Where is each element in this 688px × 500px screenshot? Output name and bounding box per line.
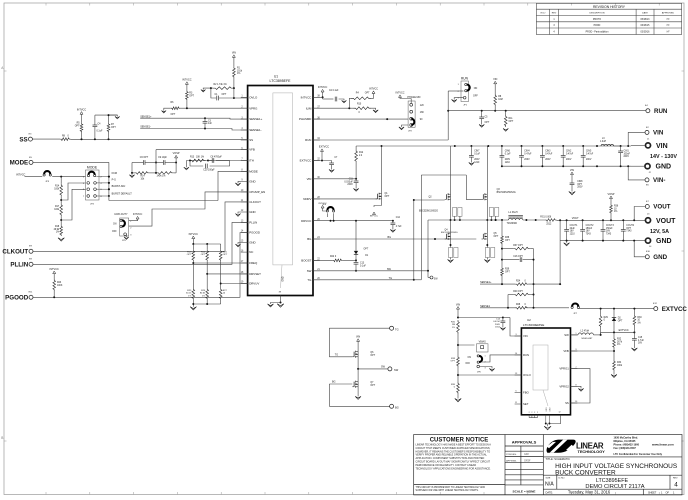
resistor R12 2.2 xyxy=(355,146,357,150)
resistor R33 OPT xyxy=(457,356,460,367)
ground pin 12 xyxy=(238,212,241,214)
connector E3 SS xyxy=(28,137,32,141)
wire R33 to R35 xyxy=(457,367,459,382)
svg-text:TITLE: SCHEMATIC: TITLE: SCHEMATIC xyxy=(546,457,570,461)
svg-text:VOUT: VOUT xyxy=(653,204,670,211)
connector E9 CLKOUT xyxy=(29,249,33,253)
svg-text:OPT: OPT xyxy=(485,122,490,124)
svg-text:22uF: 22uF xyxy=(570,228,576,230)
svg-text:C16 OPT: C16 OPT xyxy=(513,256,523,258)
svg-text:2: 2 xyxy=(534,412,535,414)
wire Q6 source to SW xyxy=(357,357,359,369)
transistor Q6 OPT xyxy=(353,352,355,357)
ground VFB divider xyxy=(131,163,133,173)
svg-text:C6 OPT: C6 OPT xyxy=(140,157,149,159)
wire L3 to CIN1 xyxy=(614,145,631,147)
transistor Q7 OPT xyxy=(353,382,355,387)
label VBIAS xyxy=(477,344,489,352)
wire TG to Q3 gate xyxy=(414,279,422,281)
svg-text:GND: GND xyxy=(656,238,672,245)
flag SW offpage xyxy=(430,276,433,279)
svg-text:RUN: RUN xyxy=(523,353,529,357)
ground Q4 source xyxy=(450,258,452,260)
ground U2 main xyxy=(547,424,549,427)
svg-text:EXTVCC: EXTVCC xyxy=(662,306,688,313)
power INTVCC pin38 xyxy=(313,96,323,98)
svg-text:VPRG: VPRG xyxy=(249,106,258,110)
power VIN top xyxy=(232,55,235,58)
svg-text:VOSP: VOSP xyxy=(173,152,180,155)
capacitor CIN2 0.47uF xyxy=(562,146,564,156)
connector J1 VIN xyxy=(645,143,650,148)
svg-text:T4630300: T4630300 xyxy=(507,223,518,225)
svg-text:MODE: MODE xyxy=(249,170,258,174)
revision history table xyxy=(536,3,681,34)
svg-text:MODE: MODE xyxy=(10,160,29,167)
svg-text:INTVCC: INTVCC xyxy=(319,203,328,205)
capacitor CIN8 OPT xyxy=(571,175,573,183)
connector E4 RUN xyxy=(646,109,650,113)
wire BG pin24 xyxy=(313,238,476,240)
svg-text:R38: R38 xyxy=(505,237,510,239)
U1 right pins xyxy=(299,95,320,282)
svg-text:R28: R28 xyxy=(516,304,521,306)
resistor R22 0 xyxy=(333,259,343,262)
svg-text:1.0uH: 1.0uH xyxy=(600,141,606,143)
wire Q5 drain xyxy=(486,220,488,234)
svg-text:PLLIN: PLLIN xyxy=(249,221,257,225)
resistor R14 100k xyxy=(60,184,63,197)
connector J2 GND xyxy=(645,164,650,169)
svg-text:R17: R17 xyxy=(55,206,60,208)
resistor R6 xyxy=(171,107,180,110)
wire EXTVCC rail xyxy=(601,331,635,333)
svg-text:TG: TG xyxy=(389,277,393,280)
capacitor CIN4 0.47uF xyxy=(521,146,523,156)
svg-text:C13: C13 xyxy=(360,263,365,265)
connector E2 VIN xyxy=(645,130,649,134)
wire BG flag xyxy=(329,405,389,407)
capacitor CIN6 0.1uF xyxy=(501,146,503,156)
wire JP7 to E12 xyxy=(578,308,654,310)
svg-text:GND: GND xyxy=(249,241,255,245)
svg-text:49.9k: 49.9k xyxy=(54,229,60,231)
capacitor C7 xyxy=(331,161,333,164)
svg-text:DRVCC: DRVCC xyxy=(301,219,311,223)
capacitor C2 0.1uF xyxy=(322,97,324,99)
svg-text:OPT: OPT xyxy=(111,127,116,129)
svg-text:100% DUTY: 100% DUTY xyxy=(114,213,128,216)
svg-text:GND: GND xyxy=(249,210,255,214)
wire MODE to pin8 xyxy=(108,196,110,201)
power VIN CIN8 xyxy=(571,172,574,175)
wire freq gnd rail xyxy=(193,303,220,305)
svg-text:R10: R10 xyxy=(357,103,362,105)
jumper JP3 xyxy=(44,171,50,174)
jumper JP5 shunt xyxy=(122,220,125,226)
svg-text:1%: 1% xyxy=(56,232,59,234)
wire VOUT rail xyxy=(557,219,646,221)
capacitor CIN1 100uF xyxy=(620,146,622,151)
resistor R40 OPT xyxy=(513,293,530,296)
power VIN Q6 xyxy=(357,341,359,351)
capacitor COUT3 xyxy=(602,220,604,229)
svg-text:APPROVALS: APPROVALS xyxy=(512,440,537,445)
resistor R7 OPT xyxy=(108,115,110,123)
svg-text:PROD: PROD xyxy=(594,25,601,27)
wire TG flag xyxy=(390,326,394,330)
svg-text:10K 1%: 10K 1% xyxy=(196,157,204,159)
svg-text:0.1uF: 0.1uF xyxy=(505,153,511,155)
svg-text:R34: R34 xyxy=(617,362,622,364)
svg-text:BSC520N15NS3G: BSC520N15NS3G xyxy=(419,211,438,213)
ground at SS top rail xyxy=(115,117,120,119)
svg-text:ILIM: ILIM xyxy=(306,106,312,110)
resistor R34 196k xyxy=(613,360,616,371)
wire ILIM pin37 xyxy=(313,107,354,109)
svg-text:TECHNOLOGY: TECHNOLOGY xyxy=(578,449,606,454)
svg-text:ECO: ECO xyxy=(541,13,546,15)
svg-text:LTC Confidential-For Customer: LTC Confidential-For Customer Use Only xyxy=(614,453,663,456)
svg-text:OVLO: OVLO xyxy=(523,373,532,377)
U1 ground pin 39 stub xyxy=(280,296,282,303)
svg-text:VIN: VIN xyxy=(656,143,668,150)
svg-text:200V: 200V xyxy=(505,159,511,161)
connector E11 PGOOD xyxy=(29,295,33,299)
svg-text:BURST DEFAULT: BURST DEFAULT xyxy=(112,193,133,196)
U1 left pins xyxy=(241,95,266,285)
svg-text:1%: 1% xyxy=(637,322,640,324)
svg-text:196k: 196k xyxy=(617,365,623,367)
svg-text:FREQ: FREQ xyxy=(249,261,258,265)
wire R31 top to C14 xyxy=(458,317,503,319)
svg-text:SHEET: SHEET xyxy=(648,491,657,494)
svg-text:OPT: OPT xyxy=(223,254,228,256)
ground R18 xyxy=(58,238,64,241)
resistor R28 0 xyxy=(515,306,528,309)
svg-text:VIN: VIN xyxy=(570,169,574,172)
svg-text:OPT: OPT xyxy=(385,196,390,198)
power VIN R8b xyxy=(494,81,497,84)
ground output rail xyxy=(566,241,568,243)
svg-text:COUT4: COUT4 xyxy=(626,225,635,227)
resistor R11 OPT xyxy=(505,111,507,115)
svg-text:16V: 16V xyxy=(638,343,643,345)
svg-text:RUN: RUN xyxy=(654,108,668,115)
wire U2 bottom gnd xyxy=(529,417,537,419)
wire SS to pin5 xyxy=(71,139,248,141)
svg-text:PHASMD: PHASMD xyxy=(299,117,311,121)
svg-text:VIN: VIN xyxy=(307,177,312,181)
svg-text:P-S: P-S xyxy=(112,178,117,181)
ground left of R6 xyxy=(164,108,171,110)
snubber footprint Q2 xyxy=(453,208,457,217)
svg-text:16V: 16V xyxy=(606,231,611,233)
svg-text:PCB DES.: PCB DES. xyxy=(506,454,517,456)
svg-text:14V - 130V: 14V - 130V xyxy=(650,154,677,160)
op-amp U1 LTC3895EFE body xyxy=(248,74,313,295)
svg-text:0.033uF: 0.033uF xyxy=(344,181,353,183)
svg-text:R40 OPT: R40 OPT xyxy=(513,291,523,293)
svg-text:1%: 1% xyxy=(614,211,617,213)
svg-text:SUPPLIED FOR USE WITH LINEAR T: SUPPLIED FOR USE WITH LINEAR TECHNOLOGY … xyxy=(416,489,479,492)
svg-text:100uF: 100uF xyxy=(624,153,631,155)
svg-text:1%: 1% xyxy=(617,344,620,346)
capacitor C14 0.47uF xyxy=(502,318,504,322)
power VOSP at VFB xyxy=(175,155,178,158)
svg-text:BURST ADJ: BURST ADJ xyxy=(112,185,126,188)
ground ITH xyxy=(185,161,187,168)
svg-text:1812: 1812 xyxy=(495,327,501,329)
svg-text:INTVCC: INTVCC xyxy=(50,268,60,271)
wire VIN to R31 xyxy=(457,309,459,317)
connector E8 PLLIN xyxy=(29,262,33,266)
power INTVCC freq pullups xyxy=(192,236,195,239)
wire Q4 drain xyxy=(450,220,452,234)
resistor R36 10 xyxy=(610,199,612,204)
svg-text:PROD - Parts addition: PROD - Parts addition xyxy=(586,30,609,33)
svg-text:SS: SS xyxy=(565,401,569,405)
wire C14 to U2 VIN xyxy=(503,317,510,319)
svg-text:MODE: MODE xyxy=(87,165,98,169)
svg-text:SENSE1+: SENSE1+ xyxy=(249,117,262,121)
resistor R27 10 xyxy=(219,288,222,300)
capacitor C15 4.7uF xyxy=(633,332,635,338)
svg-text:ON: ON xyxy=(468,357,472,359)
svg-text:VOUT: VOUT xyxy=(572,217,579,220)
svg-text:TECHNOLOGY APPLICATIONS ENGINE: TECHNOLOGY APPLICATIONS ENGINEERING FOR … xyxy=(416,467,491,470)
svg-text:SET: SET xyxy=(523,402,529,406)
svg-text:C12: C12 xyxy=(396,217,401,219)
svg-text:CUSTOMER NOTICE: CUSTOMER NOTICE xyxy=(430,437,489,443)
svg-text:12V, 5A: 12V, 5A xyxy=(650,229,669,235)
svg-text:16V: 16V xyxy=(570,231,575,233)
svg-text:C8 4700pF: C8 4700pF xyxy=(210,157,222,159)
svg-text:EXTVCC: EXTVCC xyxy=(319,146,329,149)
resistor R29 0 xyxy=(600,309,602,315)
svg-text:GND: GND xyxy=(249,180,255,184)
wire TG pin20 xyxy=(313,279,414,281)
svg-text:1%: 1% xyxy=(452,327,455,329)
header JP5 xyxy=(120,218,129,236)
svg-text:VPRG1: VPRG1 xyxy=(559,367,569,371)
connector J4 GND xyxy=(645,238,650,243)
svg-text:THIS CIRCUIT IS PROPRIETARY TO: THIS CIRCUIT IS PROPRIETARY TO LINEAR TE… xyxy=(416,486,486,489)
svg-text:R39: R39 xyxy=(505,269,510,271)
wire VIN pin30 xyxy=(313,178,356,180)
transistor Q5 xyxy=(482,234,484,239)
svg-text:200V: 200V xyxy=(586,159,592,161)
svg-text:CLKOUT: CLKOUT xyxy=(249,200,261,204)
wire R31 to R33 xyxy=(457,334,459,356)
svg-text:VIN: VIN xyxy=(653,130,664,137)
svg-text:200V: 200V xyxy=(566,159,572,161)
resistor R15 140k xyxy=(156,172,173,175)
power VIN U2 xyxy=(457,307,460,310)
svg-text:1%: 1% xyxy=(237,73,240,75)
capacitor CIN7 0.1uF xyxy=(470,146,472,156)
U2 bottom pins xyxy=(529,407,561,424)
wire Q1 drain xyxy=(381,146,383,194)
connector J3 VOUT xyxy=(645,218,650,223)
svg-text:OPT: OPT xyxy=(505,271,510,273)
resistor R24 0 xyxy=(515,283,528,286)
resistor R1 191k xyxy=(233,57,235,66)
svg-text:1210: 1210 xyxy=(570,233,576,235)
wire OVLO pin1 xyxy=(211,88,216,98)
wire VFB pin6 xyxy=(156,149,248,151)
svg-text:INTVCC: INTVCC xyxy=(318,86,328,89)
resistor R4 OPT xyxy=(349,97,351,99)
svg-text:R32: R32 xyxy=(617,339,622,341)
wire BOOST pin22 xyxy=(313,259,333,261)
resistor R35 0 xyxy=(457,382,460,394)
svg-text:ON: ON xyxy=(113,224,117,226)
title block frame xyxy=(414,435,682,495)
svg-text:0.47uF: 0.47uF xyxy=(524,153,532,155)
svg-text:TG: TG xyxy=(395,327,399,331)
wire VBIAS tap xyxy=(458,344,475,346)
svg-text:VPRG2: VPRG2 xyxy=(559,384,569,388)
resistor R20 OPT xyxy=(206,250,209,262)
node R1-R2 xyxy=(233,87,235,89)
svg-text:PGOOD: PGOOD xyxy=(249,231,260,235)
svg-text:OPT: OPT xyxy=(370,355,375,357)
svg-text:03/30/16: 03/30/16 xyxy=(641,31,651,33)
ground R10 xyxy=(371,108,376,110)
capacitor C11 0.033uF xyxy=(355,179,357,181)
svg-text:ITH: ITH xyxy=(249,159,254,163)
wire TG to Q2 gate xyxy=(413,200,415,280)
svg-text:INTVCC: INTVCC xyxy=(396,92,405,95)
transistor Q2 xyxy=(446,194,448,199)
svg-text:REV: REV xyxy=(552,13,557,15)
svg-text:LTC3895EFE: LTC3895EFE xyxy=(596,478,629,484)
svg-text:INTVCC: INTVCC xyxy=(301,95,312,99)
svg-text:R23: R23 xyxy=(57,282,62,284)
svg-text:CIN3: CIN3 xyxy=(545,151,551,153)
svg-text:4.7uF: 4.7uF xyxy=(638,340,644,342)
wire R14-R17 tap xyxy=(61,183,85,200)
wire SW sense chain xyxy=(501,220,503,235)
svg-text:100k: 100k xyxy=(54,209,60,211)
svg-text:VIN: VIN xyxy=(493,78,497,81)
svg-text:R30: R30 xyxy=(637,317,642,319)
svg-text:SW: SW xyxy=(394,368,399,372)
capacitor C3 1nF sense filter xyxy=(204,118,206,121)
svg-text:SW: SW xyxy=(564,333,569,337)
wire DRVCC pin26 xyxy=(313,220,393,222)
svg-text:OPT: OPT xyxy=(365,93,370,95)
resistor R3 OPT xyxy=(186,84,188,90)
svg-text:OPT: OPT xyxy=(75,125,80,127)
wire L1 to RS1 xyxy=(523,219,545,221)
wire mode rows xyxy=(108,173,110,196)
svg-text:GKF: GKF xyxy=(524,453,529,456)
wire NDRV pin28 xyxy=(313,198,378,200)
svg-text:140k 1%: 140k 1% xyxy=(157,176,166,178)
connector E10 GND xyxy=(645,255,649,259)
svg-text:BUCK CONVERTER: BUCK CONVERTER xyxy=(555,469,616,476)
svg-text:DRVSET: DRVSET xyxy=(249,272,261,276)
power INTVCC JP2 xyxy=(410,99,412,104)
svg-text:CIN6: CIN6 xyxy=(505,151,511,153)
wire SW pin21 xyxy=(313,270,428,272)
resistor R30 10 xyxy=(633,309,635,315)
svg-text:L1 33uH: L1 33uH xyxy=(508,211,517,214)
svg-text:BG: BG xyxy=(395,406,399,410)
svg-text:INTVCC: INTVCC xyxy=(189,233,199,236)
svg-text:IC NO.: IC NO. xyxy=(558,477,565,479)
svg-text:R36: R36 xyxy=(614,206,619,208)
svg-text:200V: 200V xyxy=(577,187,583,189)
svg-text:RUN: RUN xyxy=(461,77,469,81)
svg-text:0.1uF: 0.1uF xyxy=(360,265,366,267)
resistor R17 100k xyxy=(60,196,62,203)
svg-text:CIN2: CIN2 xyxy=(566,151,572,153)
svg-text:EXTVCC: EXTVCC xyxy=(619,329,629,332)
svg-text:7343: 7343 xyxy=(626,231,632,233)
resistor R23 100K xyxy=(53,274,55,279)
svg-text:200V: 200V xyxy=(524,159,530,161)
wire VIN bus xyxy=(356,145,620,147)
wire JP6 to RUN xyxy=(481,355,521,362)
svg-text:SW: SW xyxy=(387,268,392,271)
capacitor C8 4700pF xyxy=(211,158,213,163)
svg-text:BSC520N15NS3G: BSC520N15NS3G xyxy=(497,192,516,194)
svg-text:200V: 200V xyxy=(624,156,630,158)
wire JP3 to R14 xyxy=(52,176,85,178)
svg-text:200V: 200V xyxy=(495,324,501,326)
svg-text:SS: SS xyxy=(19,136,27,143)
wire freq pullup rail xyxy=(192,239,194,244)
svg-text:06/26/15: 06/26/15 xyxy=(641,25,651,27)
wire PHASMD pin36 xyxy=(313,118,408,120)
svg-text:EXTVCC: EXTVCC xyxy=(300,159,312,163)
wire Q1 source xyxy=(381,199,383,206)
svg-text:C2 0.1uF: C2 0.1uF xyxy=(329,90,339,92)
capacitor C9 10pF xyxy=(156,162,163,164)
svg-text:80.6k: 80.6k xyxy=(200,293,206,295)
svg-text:OFF: OFF xyxy=(473,95,478,98)
capacitor C1 OPT xyxy=(216,96,218,101)
svg-text:150uF: 150uF xyxy=(606,228,613,230)
svg-text:VIN-: VIN- xyxy=(653,177,665,184)
svg-text:0.47uF: 0.47uF xyxy=(493,321,500,323)
inductor L3 1.0uH xyxy=(601,144,614,146)
capacitor C13 0.1uF xyxy=(355,254,357,260)
ground left of R2 xyxy=(203,88,213,90)
svg-text:INTVCC: INTVCC xyxy=(370,216,379,218)
resistor R38 OPT xyxy=(501,235,504,245)
ground JP1 pin3 xyxy=(454,98,463,100)
wire VFB divider node xyxy=(613,349,615,361)
svg-text:LTC3630EMSE: LTC3630EMSE xyxy=(523,323,544,327)
wire sense vertical right xyxy=(533,249,535,308)
resistor R10 0 xyxy=(354,107,372,110)
resistor R21 OPT xyxy=(219,250,222,262)
wire PLLIN xyxy=(33,222,248,264)
wire JP8 to INTVCC xyxy=(323,208,328,211)
svg-text:SW: SW xyxy=(307,269,312,273)
svg-text:267k: 267k xyxy=(617,341,623,343)
capacitor COUT4 xyxy=(622,220,624,229)
svg-text:0.47uF: 0.47uF xyxy=(545,153,553,155)
resistor R32 267k xyxy=(613,332,615,337)
svg-text:VIN: VIN xyxy=(356,336,360,339)
power INTVCC above R5 xyxy=(80,112,83,115)
capacitor C4 0.1uF xyxy=(94,115,96,125)
